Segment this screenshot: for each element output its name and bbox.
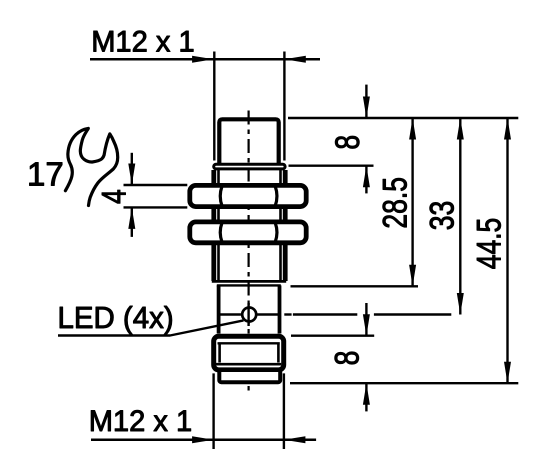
LED centerline dash right of body: [284, 313, 291, 315]
connector inner chamfer line: [218, 342, 280, 344]
svg-text:M12 x 1: M12 x 1: [91, 25, 194, 58]
connector lower chamfer line: [216, 363, 281, 366]
hex nut 2: [190, 222, 306, 243]
top dimension arrow left-pointing: [284, 56, 306, 63]
dim 28.5 line: [411, 118, 413, 286]
svg-text:17: 17: [27, 156, 64, 193]
dim 4 upper arrow line: [131, 153, 133, 185]
thread neck right outer: [283, 170, 288, 185]
dim 44.5 arrowhead up: [504, 118, 511, 140]
hex nut 1: [190, 185, 306, 206]
svg-text:8: 8: [329, 135, 367, 150]
thread neck left root: [217, 170, 220, 185]
wrench icon: [65, 128, 117, 205]
svg-text:4: 4: [95, 189, 133, 204]
thread end line: [212, 280, 286, 283]
sensor head M12 thread top: [219, 119, 278, 166]
thread neck left outer: [211, 170, 216, 185]
dim 4 lower arrow line: [131, 207, 133, 237]
thread barrel below nut 2 left outer: [211, 245, 216, 282]
dim 4 lower arrowhead up: [128, 207, 135, 229]
dim 33 arrowhead up: [457, 118, 464, 140]
thread between nuts left outer: [211, 209, 216, 222]
nut 1 left face line: [220, 186, 222, 206]
svg-text:28.5: 28.5: [376, 177, 414, 229]
thread barrel right root: [279, 245, 282, 282]
dim 8 top: upper arrow line: [365, 85, 367, 118]
thread between nuts right outer: [283, 209, 288, 222]
right extension line top face: [288, 117, 518, 119]
dim 44.5 arrowhead down: [504, 362, 511, 384]
top extension line right: [283, 52, 285, 161]
bottom extension line left: [212, 373, 214, 449]
bottom dimension arrow left-pointing: [284, 436, 306, 443]
right extension line thread end of head: [289, 164, 374, 166]
dim 8 bottom: lower arrow line: [365, 383, 367, 411]
centerline through LED: [247, 303, 249, 326]
connector thread tip: [219, 370, 280, 382]
connector coupling nut body: [214, 336, 284, 370]
dim 8 bottom: upper arrow line: [365, 303, 367, 336]
right extension line LED axis segment 2: [374, 313, 451, 315]
thread barrel left root: [217, 245, 220, 282]
flange shoulder: [214, 164, 285, 169]
LED joint line left segment: [220, 313, 241, 315]
nut 2 right face line: [275, 223, 277, 242]
right extension line connector top: [291, 335, 374, 337]
housing step line: [217, 284, 281, 286]
svg-text:M12 x 1: M12 x 1: [89, 405, 192, 438]
right extension line bottom face: [290, 382, 518, 384]
svg-text:LED (4x): LED (4x): [58, 302, 174, 336]
LED hole circle: [242, 308, 256, 322]
svg-text:33: 33: [423, 201, 461, 231]
dim 8 top: lower arrowhead up: [363, 166, 370, 188]
svg-text:44.5: 44.5: [470, 218, 508, 270]
centerline vertical axis: [248, 111, 250, 392]
bottom dimension arrow right-pointing: [192, 436, 214, 443]
dim 33 line: [459, 118, 461, 315]
thread barrel right outer: [283, 245, 288, 282]
top extension line left: [213, 52, 215, 161]
thread between nuts left root: [217, 209, 220, 222]
top dimension line: [90, 58, 320, 61]
dim 28.5 arrowhead up: [409, 118, 416, 140]
thread between nuts right root: [279, 209, 282, 222]
connector right face line: [277, 345, 280, 363]
thread neck right root: [279, 170, 282, 185]
dim 4 extension line top: [124, 184, 188, 186]
dim 8 bottom: lower arrowhead up: [363, 383, 370, 405]
dim 4 extension line bottom: [124, 206, 188, 208]
bottom dimension line: [91, 438, 316, 441]
right extension line LED axis segment 1: [293, 313, 357, 315]
right extension line housing step: [291, 285, 419, 287]
dim 44.5 line: [506, 118, 508, 383]
LED joint line right segment: [258, 313, 281, 315]
top dimension arrow right-pointing: [192, 56, 214, 63]
nut 2 left face line: [220, 223, 222, 242]
nut 1 right face line: [275, 186, 277, 206]
svg-text:8: 8: [328, 351, 366, 366]
dim 4 upper arrowhead down: [128, 164, 135, 186]
housing right edge: [278, 285, 282, 333]
housing left edge: [217, 285, 221, 333]
dim 8 top: upper arrowhead down: [363, 97, 370, 119]
bottom extension line right: [283, 373, 285, 449]
LED leader line: [58, 320, 244, 335]
dim 33 arrowhead down: [457, 293, 464, 315]
dim 8 bottom: upper arrowhead down: [363, 314, 370, 336]
dim 28.5 arrowhead down: [409, 265, 416, 287]
dim 8 top: lower arrow line: [365, 166, 367, 194]
connector left face line: [218, 345, 221, 363]
